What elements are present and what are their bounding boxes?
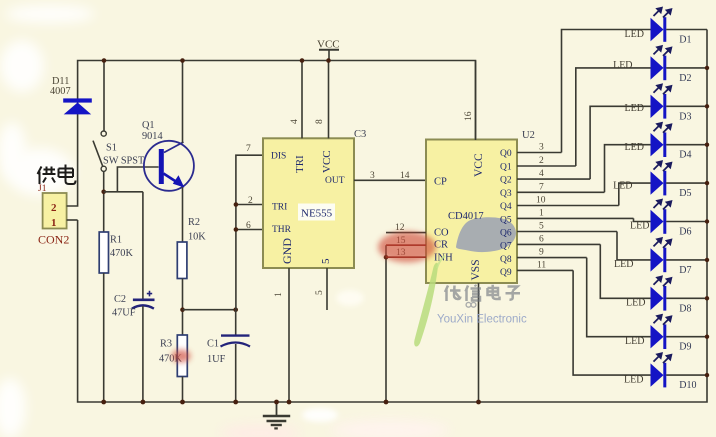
IC NE555 timer: [263, 138, 354, 268]
wire Q4 pin 10 to LED D5: [517, 183, 651, 205]
svg-text:C3: C3: [354, 129, 366, 140]
wire top VCC rail: [78, 61, 476, 141]
wire J1 pin2 stub: [67, 114, 78, 206]
svg-text:DIS: DIS: [271, 152, 286, 162]
wire R2 bottom to node: [182, 279, 184, 336]
red highlight over pins 15/13: [378, 232, 436, 263]
wire node horizontal: [183, 309, 236, 311]
svg-text:7: 7: [246, 144, 251, 154]
svg-text:U2: U2: [522, 130, 535, 141]
svg-text:LED: LED: [624, 375, 643, 386]
svg-text:8: 8: [315, 119, 325, 124]
wire Q9 pin 11 to LED D10: [517, 260, 651, 375]
svg-text:TRI: TRI: [294, 155, 306, 173]
wire CD4017 VSS pin8 to rail: [478, 283, 480, 402]
svg-text:SW SPST: SW SPST: [103, 156, 145, 167]
svg-text:Q4: Q4: [500, 202, 512, 212]
svg-text:6: 6: [539, 234, 544, 244]
svg-text:VSS: VSS: [470, 259, 482, 280]
svg-text:LED: LED: [613, 181, 632, 192]
wire Q8 pin 9 to LED D9: [517, 248, 651, 337]
svg-text:4007: 4007: [50, 86, 71, 97]
svg-text:TRI: TRI: [272, 203, 287, 213]
wire Q1 emitter to R2: [182, 187, 184, 242]
ground: [263, 400, 290, 429]
svg-text:GND: GND: [280, 238, 294, 264]
svg-text:D4: D4: [679, 150, 691, 161]
svg-text:S1: S1: [106, 143, 117, 154]
svg-text:Q2: Q2: [500, 176, 512, 186]
wire OUT to CP: [354, 179, 426, 181]
svg-text:D9: D9: [679, 342, 691, 353]
wire bottom ground rail: [78, 30, 707, 403]
svg-text:9: 9: [539, 248, 544, 258]
IC U2 CD4017: [426, 140, 517, 284]
LED D5: [613, 161, 709, 199]
svg-text:D1: D1: [679, 35, 691, 46]
LED D10: [624, 353, 709, 391]
svg-text:3: 3: [539, 143, 544, 153]
svg-text:1: 1: [274, 292, 284, 297]
svg-text:D8: D8: [679, 303, 691, 314]
svg-text:Q0: Q0: [500, 149, 512, 159]
svg-text:LED: LED: [613, 60, 632, 71]
capacitor C1 1UF: [207, 310, 250, 405]
wire junction to C2: [104, 191, 143, 193]
wire CD4017 pin16 to rail: [475, 61, 477, 141]
svg-text:LED: LED: [625, 336, 644, 347]
svg-text:C1: C1: [207, 339, 219, 350]
LED D3: [625, 85, 710, 123]
svg-text:R3: R3: [160, 339, 172, 350]
svg-text:9014: 9014: [142, 131, 163, 142]
svg-text:5: 5: [315, 290, 325, 295]
svg-text:10K: 10K: [188, 232, 206, 243]
svg-text:Q8: Q8: [500, 255, 512, 265]
svg-text:D3: D3: [679, 111, 691, 122]
capacitor C2 47UF: [112, 192, 155, 405]
wire NE555 pin5 stub: [326, 268, 328, 310]
wire Q3 pin 7 to LED D4: [517, 145, 651, 193]
svg-text:THR: THR: [272, 225, 292, 235]
LED D1: [625, 8, 708, 46]
svg-text:LED: LED: [625, 142, 644, 153]
watermark text 优信电子: [445, 285, 520, 301]
switch S1 SW SPST: [93, 61, 145, 172]
svg-text:1: 1: [539, 208, 544, 218]
LED D7: [614, 238, 709, 276]
node collector/rail junction: [180, 58, 185, 63]
svg-text:NE555: NE555: [301, 208, 333, 220]
wire NE555 left bus (pins 7,2,6): [236, 155, 263, 310]
svg-text:VCC: VCC: [321, 150, 333, 173]
svg-text:D5: D5: [679, 188, 691, 199]
node S1/base/C2 junction: [101, 190, 106, 195]
wire NE555 pin1 to rail: [288, 268, 290, 402]
wire J1 pin1 stub: [67, 219, 78, 221]
wire NE555 pin8 to rail: [328, 61, 330, 139]
svg-text:5: 5: [320, 258, 332, 264]
wire Q1 collector to rail: [182, 61, 184, 144]
wire NE555 pin4 to rail: [301, 61, 303, 139]
svg-text:16: 16: [464, 111, 474, 121]
svg-text:LED: LED: [625, 29, 644, 40]
svg-text:CR: CR: [434, 240, 448, 251]
svg-text:Q7: Q7: [500, 242, 512, 252]
wire CR pin15 / INH pin13 to ground: [384, 236, 426, 404]
transistor Q1 9014: [142, 120, 194, 191]
svg-text:VCC: VCC: [473, 153, 485, 177]
svg-text:D7: D7: [679, 265, 691, 276]
svg-text:Q1: Q1: [142, 120, 155, 131]
LED D4: [625, 123, 710, 161]
svg-text:6: 6: [246, 221, 251, 231]
svg-text:Q9: Q9: [500, 268, 512, 278]
resistor R1 470K: [99, 232, 133, 273]
svg-text:R1: R1: [110, 235, 122, 246]
svg-text:2: 2: [248, 196, 253, 206]
svg-text:14: 14: [400, 171, 410, 181]
svg-text:J1: J1: [38, 184, 47, 194]
red highlight on R3: [172, 350, 191, 363]
wire S1 to R1: [103, 171, 105, 232]
svg-text:CON2: CON2: [38, 233, 69, 247]
watermark green leaf: [414, 263, 438, 347]
svg-text:2: 2: [539, 156, 544, 166]
wire base riser: [117, 167, 158, 192]
svg-text:2: 2: [51, 202, 57, 214]
svg-text:YouXin Electronic: YouXin Electronic: [437, 314, 527, 326]
svg-text:R2: R2: [188, 217, 200, 228]
wire Q7 pin 6 to LED D8: [517, 234, 651, 298]
svg-text:3: 3: [370, 171, 375, 181]
svg-text:LED: LED: [630, 221, 649, 232]
svg-text:CO: CO: [434, 228, 449, 239]
resistor R2 10K: [177, 217, 206, 279]
svg-text:LED: LED: [625, 103, 644, 114]
wire Q6 pin 5 to LED D7: [517, 222, 651, 260]
svg-text:5: 5: [539, 222, 544, 232]
node S1/rail junction: [102, 58, 107, 63]
svg-text:Q5: Q5: [500, 215, 512, 225]
svg-text:LED: LED: [626, 298, 645, 309]
svg-text:LED: LED: [614, 259, 633, 270]
wire Q1 pin 2 to LED D2: [517, 68, 651, 166]
diode D11 4007: [50, 76, 92, 114]
wire R1 to rail: [103, 273, 105, 402]
svg-text:12: 12: [395, 223, 405, 233]
label 供电 (red CJK): [38, 165, 76, 185]
svg-text:4: 4: [539, 169, 544, 179]
svg-text:470K: 470K: [110, 248, 133, 259]
watermark infinity mark: [466, 302, 476, 307]
svg-text:Q6: Q6: [500, 229, 512, 239]
svg-text:1: 1: [51, 217, 57, 229]
svg-text:47UF: 47UF: [112, 308, 136, 319]
connector J1 CON2: [38, 184, 69, 247]
svg-text:D2: D2: [679, 73, 691, 84]
svg-text:OUT: OUT: [325, 176, 345, 186]
wire Q5 pin 1 to LED D6: [517, 208, 651, 221]
svg-text:CD4017: CD4017: [448, 211, 484, 222]
wire Q0 pin 3 to LED D1: [517, 30, 651, 153]
node R2/R3/C1: [180, 307, 185, 312]
wire R3 to rail: [182, 377, 184, 403]
VCC power symbol: [317, 39, 340, 61]
svg-text:VCC: VCC: [317, 39, 340, 51]
svg-text:CP: CP: [434, 177, 447, 188]
svg-text:10: 10: [536, 196, 546, 206]
svg-text:7: 7: [539, 182, 544, 192]
svg-text:D10: D10: [679, 380, 696, 391]
LED D9: [625, 315, 709, 353]
svg-text:C2: C2: [114, 294, 126, 305]
wire Q2 pin 4 to LED D3: [517, 106, 651, 179]
LED D2: [613, 46, 709, 84]
LED D6: [630, 200, 709, 238]
resistor R3 470K: [159, 335, 187, 377]
svg-text:11: 11: [537, 260, 546, 270]
svg-text:4: 4: [290, 119, 300, 124]
wire CO pin12: [386, 232, 426, 234]
LED D8: [626, 277, 709, 315]
svg-text:Q3: Q3: [500, 189, 512, 199]
svg-text:1UF: 1UF: [207, 354, 226, 365]
svg-text:D6: D6: [679, 227, 691, 238]
svg-text:Q1: Q1: [500, 163, 512, 173]
